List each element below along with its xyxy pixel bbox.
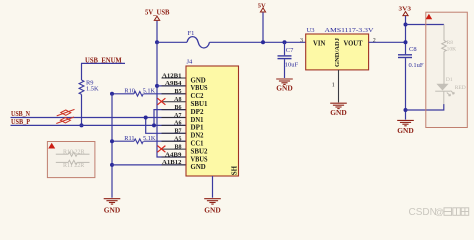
node junction C7 tap <box>283 40 287 44</box>
svg-text:SBU2: SBU2 <box>191 147 208 155</box>
svg-text:VOUT: VOUT <box>344 39 363 47</box>
wire U3 pin1 to ground <box>338 70 340 103</box>
pin designators J4 <box>162 73 182 166</box>
svg-text:DP1: DP1 <box>191 124 204 132</box>
svg-text:VIN: VIN <box>313 39 325 47</box>
differential pair marker USB_P <box>56 117 74 124</box>
node junction R9 on USB_P <box>80 123 84 127</box>
svg-text:U3: U3 <box>307 27 316 34</box>
regulator U3 AMS1117-3.3V <box>306 27 374 70</box>
svg-text:R10 22R: R10 22R <box>63 149 85 155</box>
compile error marker right <box>426 14 433 19</box>
wire DN2 jog <box>146 118 186 134</box>
svg-text:1.5K: 1.5K <box>86 85 99 92</box>
svg-text:C7: C7 <box>286 47 294 54</box>
resistor R10 22R (not fitted) <box>56 152 90 156</box>
svg-text:R11 22R: R11 22R <box>63 163 84 169</box>
wire bottom to LED return <box>406 104 444 110</box>
wire rail to fuse <box>157 41 187 43</box>
svg-text:A1B12: A1B12 <box>162 160 182 166</box>
svg-text:GND: GND <box>276 85 293 93</box>
ground below J4 <box>204 199 221 204</box>
pin stub B8 <box>162 148 187 150</box>
wire VBUS vertical from rail <box>157 42 186 157</box>
svg-text:A12B1: A12B1 <box>162 73 182 79</box>
svg-text:GND: GND <box>191 163 206 171</box>
svg-text:CC2: CC2 <box>191 92 204 100</box>
svg-text:5V_USB: 5V_USB <box>145 9 170 17</box>
fuse F1 <box>187 30 210 48</box>
svg-text:B7: B7 <box>174 129 181 135</box>
differential pair marker USB_N <box>57 109 75 116</box>
svg-text:B5: B5 <box>174 89 181 95</box>
pin stub A6 <box>162 124 187 126</box>
pin stub A8 <box>162 101 187 103</box>
svg-text:A7: A7 <box>174 113 181 119</box>
svg-text:RED: RED <box>455 85 466 91</box>
node junction C8 bottom <box>404 108 408 112</box>
pin stub B5 <box>162 93 187 95</box>
node junction R11 left <box>110 139 114 143</box>
node junction 5V <box>261 40 265 44</box>
svg-text:GND: GND <box>191 76 206 84</box>
svg-text:R10: R10 <box>124 88 134 95</box>
no-ERC X mark pin B8 <box>157 146 165 153</box>
selection box right (not fitted LED circuit) <box>426 12 468 127</box>
wire to pin A1B12 <box>112 164 186 166</box>
wire USB_N to pin A7 <box>11 117 187 119</box>
compile error marker left <box>48 143 55 149</box>
svg-text:SBU1: SBU1 <box>191 100 208 108</box>
selection box left (not fitted series resistors) <box>47 142 95 178</box>
svg-text:CC1: CC1 <box>191 140 204 148</box>
ground left <box>104 199 121 204</box>
pin stub A7 <box>162 117 187 119</box>
node junction R10 left <box>110 92 114 96</box>
node junction DN2 on USB_N <box>144 116 148 120</box>
resistor R9 <box>79 63 99 125</box>
svg-text:DP2: DP2 <box>191 108 204 116</box>
svg-text:GND: GND <box>330 109 347 117</box>
svg-text:1: 1 <box>332 83 335 89</box>
pin names J4 <box>191 76 208 171</box>
svg-text:AMS1117-3.3V: AMS1117-3.3V <box>325 27 374 34</box>
svg-text:5.1K: 5.1K <box>143 88 156 95</box>
net label USB_ENUM <box>81 58 125 65</box>
node junction DP2 on USB_P <box>152 123 156 127</box>
ground below C7 <box>276 79 293 84</box>
wire USB_P to pin A6 <box>11 124 187 126</box>
svg-text:A4B9: A4B9 <box>165 152 182 158</box>
svg-text:@: @ <box>435 207 445 218</box>
wire DP2 jog <box>154 110 186 126</box>
svg-text:0.1uF: 0.1uF <box>409 62 424 69</box>
svg-text:3: 3 <box>300 38 303 44</box>
pin stub A4B9 <box>162 156 187 158</box>
pin stub A12B1 <box>162 77 187 79</box>
watermark CSDN <box>409 207 469 218</box>
LED D1 (not fitted) <box>435 84 454 105</box>
svg-text:5V: 5V <box>258 2 266 9</box>
power port 5V_USB <box>145 9 170 21</box>
wire CC pulldown vertical to GND <box>111 94 113 198</box>
svg-text:VBUS: VBUS <box>191 155 208 163</box>
svg-text:DN2: DN2 <box>191 132 204 140</box>
pin stub A9B4 <box>162 85 187 87</box>
node junction GND pin branch <box>110 163 114 167</box>
capacitor C8 <box>398 46 424 120</box>
svg-text:R11: R11 <box>124 135 134 142</box>
svg-text:R8: R8 <box>447 40 454 46</box>
pin stub B6 <box>162 109 187 111</box>
wire 3V3 vertical rail <box>405 16 407 54</box>
power port 3V3 <box>399 5 412 15</box>
svg-text:DN1: DN1 <box>191 116 204 124</box>
pin stub A1B12 <box>162 164 187 166</box>
wire to pin A9B4 <box>157 85 186 87</box>
svg-text:GND: GND <box>204 207 221 215</box>
svg-text:10K: 10K <box>447 47 457 53</box>
resistor R11 5.1K <box>112 135 186 144</box>
resistor R11 22R (not fitted) <box>56 160 90 164</box>
svg-text:C8: C8 <box>409 46 417 53</box>
svg-text:GND: GND <box>104 207 121 215</box>
node junction 3V3 top <box>404 23 408 27</box>
svg-text:A9B4: A9B4 <box>165 81 182 87</box>
pin stub B7 <box>162 132 187 134</box>
ground below C8 <box>397 120 414 125</box>
svg-text:A6: A6 <box>174 121 181 127</box>
resistor R10 5.1K <box>112 88 186 97</box>
svg-text:5.1K: 5.1K <box>143 135 156 142</box>
wire 5V_USB vertical <box>156 21 158 43</box>
resistor R8 (not fitted) <box>442 25 447 86</box>
svg-text:B6: B6 <box>174 105 181 111</box>
svg-text:GND: GND <box>397 127 414 135</box>
svg-text:USB_P: USB_P <box>11 119 30 126</box>
svg-text:F1: F1 <box>188 30 195 37</box>
svg-text:GND/ADJ: GND/ADJ <box>334 37 341 67</box>
svg-text:2: 2 <box>373 38 376 44</box>
svg-text:VBUS: VBUS <box>191 84 208 92</box>
svg-text:USB_N: USB_N <box>11 111 30 118</box>
wire SH to ground <box>212 176 214 198</box>
svg-text:A5: A5 <box>174 137 181 143</box>
pin stub A5 <box>162 140 187 142</box>
node junction 5V_USB rail <box>155 40 159 44</box>
svg-text:D1: D1 <box>446 77 453 83</box>
svg-text:SH: SH <box>230 165 238 175</box>
svg-text:10uF: 10uF <box>285 61 299 68</box>
node junction VOUT rail <box>404 40 408 44</box>
wire fuse to VIN <box>210 41 306 43</box>
svg-text:J4: J4 <box>187 58 194 65</box>
wire 5V drop <box>262 12 264 42</box>
power port 5V <box>258 2 266 12</box>
connector J4 USB type-C <box>186 58 239 176</box>
capacitor C7 <box>278 42 299 78</box>
svg-text:B8: B8 <box>174 144 181 150</box>
ground below U3 <box>330 103 347 108</box>
node junction VBUS upper pin <box>155 84 159 88</box>
svg-text:CSDN: CSDN <box>409 207 437 218</box>
no-ERC X mark pin A8 <box>157 98 165 105</box>
wire VOUT to 3V3 rail <box>369 41 406 43</box>
svg-text:A8: A8 <box>174 97 181 103</box>
wire 3V3 to R8 branch <box>406 24 445 26</box>
